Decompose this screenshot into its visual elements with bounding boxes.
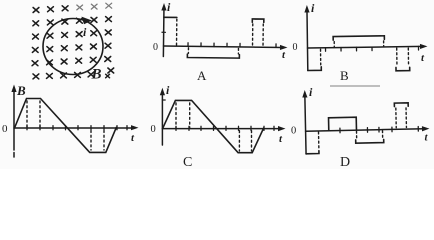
B negative pulse 2 [396,67,410,70]
A pulse 2 [252,19,264,22]
B-t axis ticks [27,126,127,130]
B negative pulse 1 [308,67,322,71]
svg-text:B: B [340,68,349,83]
B axis ticks [325,46,418,51]
C horizontal axis [162,128,280,130]
B vertical axis [306,9,309,70]
svg-text:0: 0 [293,42,298,53]
conducting loop [43,19,103,75]
B-t horizontal axis [14,127,134,129]
C waveform [163,100,264,152]
svg-text:B: B [91,67,102,83]
D negative bar [356,139,384,143]
extra small x near B [106,74,110,78]
D positive box [329,117,357,130]
A pulse 1 [164,16,177,18]
A axis ticks [188,43,276,48]
B horizontal axis [308,46,423,48]
svg-text:C: C [183,155,192,169]
C vertical axis [161,93,163,146]
svg-text:0: 0 [291,126,296,137]
D axis ticks [340,127,418,133]
current direction arrow i [82,17,93,25]
C dashed guides [176,103,252,151]
svg-text:0: 0 [153,42,158,53]
D vertical axis [305,94,306,154]
A negative bar [187,54,239,58]
svg-text:B: B [16,83,26,98]
svg-text:0: 0 [2,123,8,135]
A vertical axis [162,7,165,56]
B-t vertical axis [13,89,15,158]
svg-text:D: D [340,155,350,169]
B-t waveform [15,99,117,153]
B-t dashed guides [27,101,104,150]
D negative pulse 1 [306,151,319,154]
D horizontal axis [306,129,425,131]
scan artifact line [330,85,380,87]
B positive bar [333,36,384,40]
D positive pulse 2 [394,103,408,107]
C axis ticks [176,126,274,130]
svg-text:0: 0 [151,124,156,135]
svg-text:A: A [197,68,207,83]
A horizontal axis [164,46,283,47]
magnetic field region (x grid) [32,3,114,79]
